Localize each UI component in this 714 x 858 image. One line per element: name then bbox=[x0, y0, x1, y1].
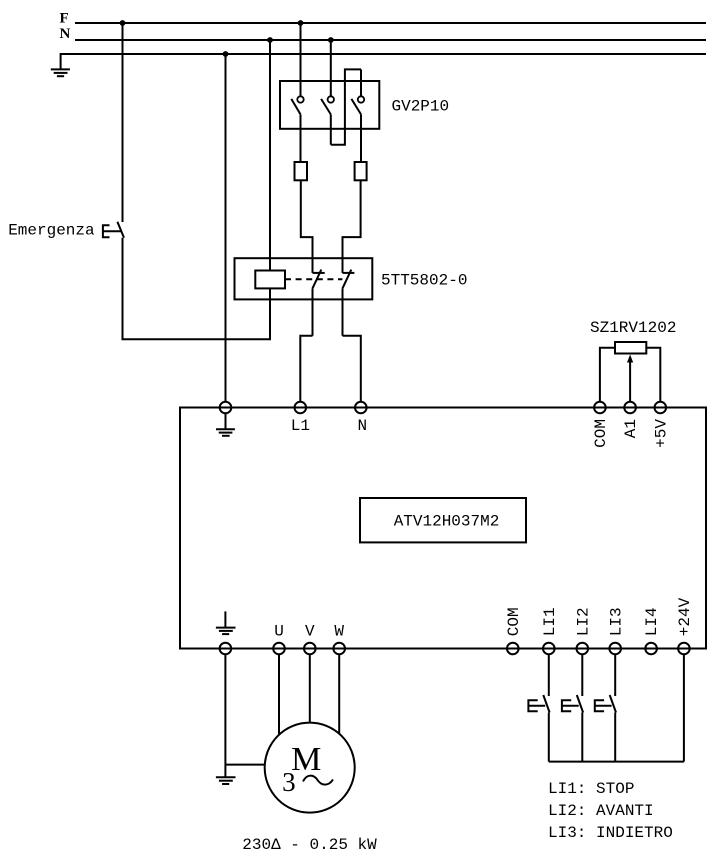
breaker pole 1 bbox=[291, 96, 303, 162]
svg-text:W: W bbox=[334, 623, 344, 641]
svg-text:U: U bbox=[274, 623, 284, 641]
ground ATV top bbox=[216, 413, 235, 436]
terminal LI3 bbox=[609, 643, 621, 655]
svg-text:5TT5802-0: 5TT5802-0 bbox=[381, 272, 467, 290]
relay K1 box bbox=[235, 258, 373, 299]
wire N to breaker pole2 bbox=[330, 40, 332, 96]
terminal +5V bbox=[655, 402, 667, 414]
svg-text:LI2: AVANTI: LI2: AVANTI bbox=[548, 802, 654, 820]
svg-text:V: V bbox=[305, 623, 315, 641]
wire contact1 to L1 bbox=[300, 336, 312, 402]
junction dot F-Emergenza bbox=[120, 20, 126, 26]
motor tilde bbox=[303, 776, 333, 785]
svg-text:230Δ - 0.25 kW: 230Δ - 0.25 kW bbox=[242, 836, 377, 854]
svg-text:LI1: STOP: LI1: STOP bbox=[548, 780, 634, 798]
wire fuse2 to relay contact2 bbox=[343, 180, 361, 273]
terminal A1 bbox=[624, 402, 636, 414]
wire contact2 to N bbox=[343, 336, 361, 402]
svg-text:LI4: LI4 bbox=[643, 607, 661, 636]
fuse F2 bbox=[355, 162, 367, 180]
terminal L1 bbox=[295, 402, 307, 414]
svg-text:N: N bbox=[358, 417, 368, 435]
svg-text:COM: COM bbox=[592, 419, 610, 448]
breaker pole 2 bbox=[321, 96, 334, 144]
wire PE to ATV ground terminal bbox=[225, 54, 227, 402]
fuse F1 bbox=[295, 162, 308, 180]
wire PE bottom to motor frame bbox=[225, 654, 264, 777]
terminal +24V bbox=[678, 643, 690, 655]
terminal V bbox=[304, 643, 316, 655]
ground PE top-left bbox=[51, 69, 70, 76]
svg-text:LI3: INDIETRO: LI3: INDIETRO bbox=[548, 824, 673, 842]
svg-text:3: 3 bbox=[282, 767, 296, 797]
wire pot right to +5V bbox=[646, 348, 660, 402]
relay link dashed bbox=[285, 278, 342, 280]
wire line PE bbox=[61, 54, 706, 69]
wire pot wiper to A1 bbox=[629, 363, 631, 402]
motor M1 circle bbox=[265, 723, 355, 813]
wire line F bbox=[75, 22, 706, 24]
wire switch bus bbox=[549, 761, 684, 763]
label box ATV12H037M2 bbox=[360, 498, 526, 542]
relay contact 1 bbox=[312, 270, 324, 336]
svg-text:+24V: +24V bbox=[676, 597, 694, 636]
svg-text:ATV12H037M2: ATV12H037M2 bbox=[394, 513, 500, 531]
wire pot left to COM bbox=[600, 348, 615, 402]
wire Emergenza to coil bbox=[123, 238, 271, 340]
wire V to motor bbox=[309, 654, 311, 722]
wire line N bbox=[75, 39, 706, 41]
wire W to motor bbox=[338, 654, 340, 733]
svg-text:LI1: LI1 bbox=[541, 607, 559, 636]
relay contact 2 bbox=[342, 270, 354, 336]
pushbutton LI1 bbox=[528, 654, 549, 761]
svg-text:SZ1RV1202: SZ1RV1202 bbox=[590, 319, 676, 337]
terminal U bbox=[273, 643, 285, 655]
terminal COM top bbox=[594, 402, 606, 414]
breaker pole 3 bbox=[351, 69, 364, 162]
terminal W bbox=[333, 643, 345, 655]
terminal LI4 bbox=[645, 643, 657, 655]
svg-text:A1: A1 bbox=[622, 419, 640, 438]
pot wiper arrowhead bbox=[627, 355, 633, 363]
wire U to motor bbox=[278, 654, 280, 734]
svg-text:LI3: LI3 bbox=[607, 607, 625, 636]
terminal LI2 bbox=[577, 643, 589, 655]
pushbutton LI3 bbox=[595, 654, 616, 761]
terminal LI1 bbox=[543, 643, 555, 655]
pushbutton LI2 bbox=[562, 654, 583, 761]
svg-text:N: N bbox=[60, 26, 71, 42]
svg-text:LI2: LI2 bbox=[574, 607, 592, 636]
pushbutton Emergenza bbox=[103, 222, 124, 238]
junction dot N-coil bbox=[267, 37, 273, 43]
svg-text:GV2P10: GV2P10 bbox=[392, 98, 450, 116]
wire F to Emergenza bbox=[122, 23, 124, 222]
junction dot F-pole1 bbox=[298, 20, 304, 26]
relay coil bbox=[255, 271, 285, 289]
wire F to breaker pole1 bbox=[300, 23, 302, 96]
potentiometer SZ1RV1202 body bbox=[615, 342, 646, 354]
terminal N bbox=[355, 402, 367, 414]
svg-text:+5V: +5V bbox=[652, 419, 670, 448]
junction dot N-pole2 bbox=[328, 37, 334, 43]
ground ATV bottom-left bbox=[216, 611, 236, 634]
svg-text:F: F bbox=[60, 11, 69, 27]
terminal COM bottom bbox=[507, 643, 519, 655]
junction dot PE bbox=[223, 51, 229, 57]
svg-text:L1: L1 bbox=[291, 417, 310, 435]
wire +24V down bbox=[683, 654, 685, 761]
svg-text:Emergenza: Emergenza bbox=[8, 222, 95, 240]
ground motor bbox=[216, 777, 236, 784]
breaker GV2P10 box bbox=[280, 81, 379, 129]
terminal PE bottom bbox=[220, 643, 232, 655]
wire jumper pole2 to pole3 bbox=[331, 69, 361, 144]
wire fuse1 to relay contact1 bbox=[301, 180, 313, 273]
terminal PE top bbox=[220, 402, 232, 414]
wire N to relay coil bbox=[269, 40, 271, 271]
drive ATV12H037M2 box bbox=[180, 408, 706, 649]
svg-text:COM: COM bbox=[505, 607, 523, 636]
